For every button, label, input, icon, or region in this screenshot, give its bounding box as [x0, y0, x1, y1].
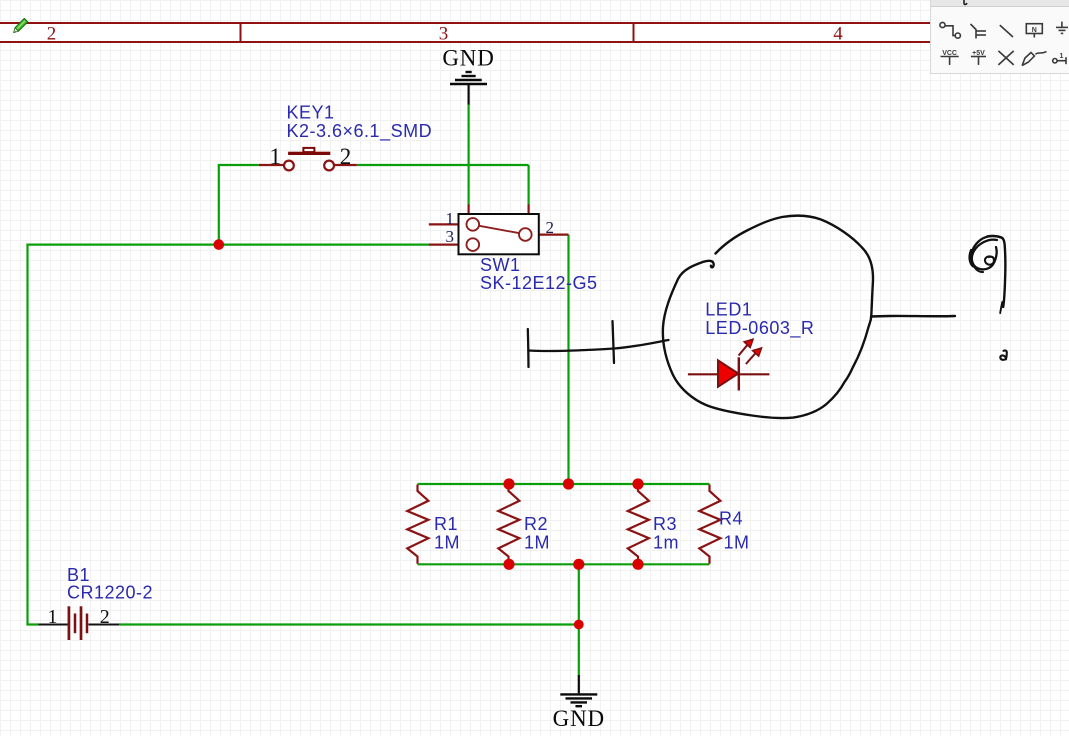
svg-text:GND: GND [553, 706, 605, 731]
svg-text:R2: R2 [524, 514, 548, 534]
svg-text:1M: 1M [724, 533, 750, 553]
svg-text:KEY1: KEY1 [287, 103, 335, 123]
svg-text:1: 1 [270, 144, 282, 169]
svg-text:GND: GND [442, 45, 494, 70]
svg-text:1m: 1m [653, 533, 679, 553]
svg-text:SK-12E12-G5: SK-12E12-G5 [480, 273, 598, 293]
svg-text:LED1: LED1 [705, 300, 752, 320]
svg-text:2: 2 [100, 606, 110, 628]
svg-text:R1: R1 [434, 514, 458, 534]
svg-text:1M: 1M [434, 533, 460, 553]
svg-text:1: 1 [1060, 53, 1064, 60]
svg-text:1: 1 [446, 209, 455, 228]
svg-text:K2-3.6×6.1_SMD: K2-3.6×6.1_SMD [287, 121, 433, 142]
svg-text:4: 4 [833, 24, 843, 45]
svg-text:2: 2 [545, 218, 554, 237]
svg-text:2: 2 [47, 24, 57, 45]
svg-text:LED-0603_R: LED-0603_R [705, 318, 814, 339]
svg-text:R4: R4 [719, 509, 743, 529]
svg-text:1M: 1M [524, 533, 550, 553]
svg-text:2: 2 [340, 144, 352, 169]
svg-text:+5V: +5V [972, 50, 985, 57]
svg-text:VCC: VCC [942, 50, 957, 57]
svg-text:3: 3 [439, 24, 449, 45]
svg-text:3: 3 [446, 227, 455, 246]
svg-text:1: 1 [48, 606, 58, 628]
svg-text:SW1: SW1 [480, 255, 521, 275]
svg-text:N: N [1032, 27, 1037, 34]
svg-text:CR1220-2: CR1220-2 [67, 583, 153, 603]
svg-text:R3: R3 [653, 514, 677, 534]
